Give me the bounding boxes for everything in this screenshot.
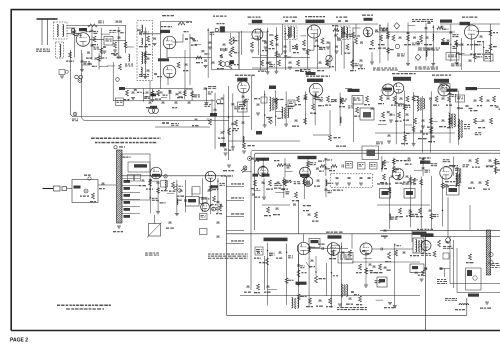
node (264, 114, 265, 115)
coil tuner 4 (141, 67, 142, 77)
wire d right h (462, 54, 473, 56)
node (317, 45, 318, 46)
label value (262, 40, 266, 41)
box tap4 (200, 229, 208, 235)
wire stem (432, 25, 434, 64)
resistor R58 (430, 118, 433, 124)
capacitor T4 top 2 (345, 21, 348, 22)
capacitor C27 (399, 37, 402, 38)
label b23 (356, 304, 359, 305)
label h blob1 (383, 88, 392, 91)
label h5 (433, 105, 437, 106)
capacitor C48 (400, 98, 403, 99)
wire tie (414, 169, 423, 171)
label hor size gray (377, 183, 380, 184)
label l1 (380, 182, 384, 183)
wire g left v (251, 75, 253, 130)
label k5 (274, 188, 277, 189)
capacitor C62 (408, 158, 411, 159)
label value (193, 40, 196, 41)
box phono in (255, 247, 263, 255)
label C7 (191, 45, 194, 46)
label value (179, 96, 183, 97)
resistor R54 (448, 96, 451, 102)
label f10 (218, 138, 220, 139)
capacitor C15 (284, 46, 287, 47)
ground G5 (222, 49, 226, 51)
node (150, 197, 151, 198)
blob pw small 2 (440, 268, 443, 270)
wire stem (100, 28, 102, 60)
label value (194, 94, 198, 95)
ground G11 (326, 47, 330, 49)
capacitor C91 (257, 252, 260, 253)
wire crt nest v3 (452, 240, 454, 288)
label value (452, 94, 455, 95)
label g3 (318, 105, 322, 106)
wire stem (340, 242, 342, 307)
resistor R3 (114, 42, 117, 48)
hatch tuner bar (117, 150, 123, 223)
node (307, 29, 308, 30)
tube V11 (392, 168, 404, 180)
tuner assembly tall dashed box (137, 21, 153, 81)
capacitor C40 (221, 132, 224, 133)
node (260, 37, 261, 38)
capacitor C30 (461, 44, 464, 45)
interlock circle 2 (153, 108, 159, 114)
resistor R62 (474, 118, 477, 124)
arrow vol (306, 262, 310, 268)
radio box top edge (227, 233, 431, 235)
node (286, 252, 287, 253)
resistor R66 (320, 165, 326, 168)
wire AGC y25.4 (67, 24, 127, 26)
coil (243, 136, 244, 142)
label R8 (234, 64, 236, 65)
resistor R7 bleeder 2 (229, 50, 232, 57)
resistor R2 (93, 36, 96, 42)
resistor R52 (406, 96, 409, 102)
label l12 (443, 246, 446, 247)
label value (390, 114, 393, 115)
wire ph out (98, 184, 116, 186)
wire stem (298, 245, 300, 307)
capacitor C69 (169, 222, 172, 223)
long wire bus y57.5 (167, 57, 212, 59)
wire x212 v (211, 99, 213, 117)
capacitor C36 (179, 92, 182, 93)
label value (287, 35, 291, 36)
label photofact line2 (66, 308, 70, 309)
resistor R83 (413, 178, 416, 184)
label trap box (106, 39, 109, 40)
power sub box (212, 32, 240, 70)
tube V vert osc (382, 84, 394, 96)
wire tie (101, 33, 110, 35)
label s11 (472, 167, 474, 168)
ground G20 (421, 126, 425, 128)
blob crt socket (467, 270, 472, 276)
label b8 (346, 259, 349, 260)
label spkr blob (348, 89, 360, 92)
capacitor C72 (217, 236, 220, 237)
capacitor hang f2 (162, 102, 165, 103)
wire stem (81, 53, 83, 69)
hatch T7 (420, 98, 422, 111)
ground G14 (359, 65, 363, 67)
wire stem (267, 28, 269, 72)
label value (212, 207, 214, 208)
label box under (442, 85, 445, 86)
ground G13 (288, 67, 292, 69)
label h6 (446, 105, 448, 106)
label d9 gray right (451, 64, 455, 65)
resistor R41 (243, 143, 246, 149)
resistor R18 (355, 38, 358, 44)
capacitor (420, 131, 423, 132)
label value (327, 168, 330, 169)
label R38 (241, 108, 245, 109)
resistor (285, 278, 288, 284)
label b19 (306, 306, 310, 307)
capacitor C47 (387, 98, 390, 99)
wire tie (457, 53, 465, 55)
wire stem (266, 243, 268, 306)
label onoff (340, 255, 342, 256)
resistor R22 (297, 60, 300, 66)
circle crt j1 (489, 252, 493, 256)
label l9 (396, 216, 398, 217)
label 6sn7 gray (419, 157, 421, 158)
wire b down3 (365, 255, 367, 285)
blob k2 (262, 174, 270, 177)
capacitor C92 (279, 252, 282, 253)
wire x228 vertical (228, 86, 230, 160)
coil (389, 214, 390, 220)
label value (391, 217, 394, 218)
label hor drive gray (402, 183, 404, 184)
resistor (441, 183, 444, 189)
blob LP motor (134, 164, 147, 167)
transformer vert out coil (449, 113, 450, 127)
wire stem (339, 93, 341, 126)
node (223, 131, 224, 132)
label h8 (380, 120, 382, 121)
resistor R59 (449, 118, 452, 124)
resistor (303, 180, 306, 186)
box hor size (380, 189, 391, 199)
label value (234, 106, 236, 107)
capacitor C2 (103, 47, 106, 48)
label video det blob (364, 18, 373, 21)
wire tie (286, 105, 294, 107)
wire x264 v (264, 256, 266, 290)
box under blob (440, 84, 450, 91)
ground seam2 (60, 76, 64, 78)
label value (337, 38, 340, 39)
capacitor (334, 35, 337, 36)
capacitor (422, 168, 425, 169)
label d6 (477, 41, 481, 42)
node (341, 246, 342, 247)
tube V1 RF amp label (79, 28, 87, 31)
wire antenna lead 1 (41, 20, 43, 45)
wire tie (251, 37, 259, 39)
wire double band line B (254, 153, 500, 230)
label value (333, 275, 335, 276)
label h15 (490, 105, 493, 106)
node (458, 125, 459, 126)
capacitor C99 (267, 286, 270, 287)
label phono in (256, 249, 260, 250)
ift T4 3rd IF transformer (338, 26, 351, 40)
node (442, 210, 443, 211)
label h11 (427, 127, 430, 128)
circle r9 (212, 207, 216, 211)
label value (452, 34, 456, 35)
ground (117, 56, 121, 58)
ground G10 (302, 49, 306, 51)
ground (412, 144, 416, 146)
node (394, 244, 395, 245)
label s12 (486, 166, 489, 167)
capacitor C8 (185, 64, 188, 65)
label top d1 gray (412, 19, 414, 20)
capacitor (440, 26, 443, 27)
resistor (403, 104, 406, 110)
wire stem (425, 23, 427, 61)
tube V16a output (327, 243, 340, 256)
label g9 (364, 104, 367, 105)
resistor R63 (490, 118, 493, 124)
label hor osc gray (396, 160, 399, 161)
capacitor C74 (277, 182, 280, 183)
coil OT p (416, 240, 417, 253)
label horiz blob (447, 89, 458, 92)
label tuner inside 1 (139, 32, 143, 33)
wire down x353g (353, 97, 355, 142)
capacitor C52 (406, 114, 409, 115)
label h9 (395, 121, 399, 122)
label b15 (244, 292, 247, 293)
wire stem (441, 176, 443, 227)
label crt7 (480, 308, 483, 309)
resistor R79 (315, 212, 318, 218)
capacitor (324, 168, 327, 169)
label R24 (350, 70, 354, 71)
capacitor C25 (428, 23, 431, 24)
blob output trans (413, 232, 427, 235)
wire v15 down (298, 254, 300, 283)
label s7 (376, 142, 380, 143)
capacitor C11 (204, 60, 207, 61)
capacitor C75 (317, 180, 320, 181)
label value (458, 44, 460, 45)
label r7 (211, 204, 214, 205)
label h3 (398, 104, 401, 105)
ground G18 (256, 113, 260, 115)
label bottom c (258, 71, 260, 72)
capacitor C13 (264, 42, 267, 43)
capacitor C68 (180, 190, 183, 191)
blob osc (188, 199, 196, 202)
capacitor C86 (409, 210, 412, 211)
coil (340, 117, 341, 123)
resistor R hv (438, 240, 441, 247)
resistor R81 (383, 174, 386, 180)
label value (458, 54, 462, 55)
label R10 (217, 68, 220, 69)
wire stem (217, 178, 219, 213)
wire stem (352, 27, 354, 71)
gang tuning cap box (149, 224, 161, 237)
resistor small (220, 55, 223, 59)
wire tie (444, 165, 452, 167)
wire l bus y205 (377, 204, 430, 206)
wire tie (300, 35, 306, 37)
capacitor tuner inside 2 (147, 70, 150, 71)
capacitor C10 (223, 44, 226, 45)
capacitor (284, 164, 287, 165)
wire y133 right (375, 132, 455, 134)
ground G8 (264, 47, 268, 49)
wire tie (99, 66, 108, 68)
resistor R40 (235, 120, 238, 126)
resistor (388, 187, 391, 193)
capacitor C81 (276, 208, 279, 209)
capacitor C42 (320, 100, 323, 101)
wire v x185 down (184, 50, 186, 89)
coil T6 sec (288, 108, 289, 118)
label ion trap (445, 298, 448, 299)
label value (497, 170, 500, 171)
wire pw junction v (444, 269, 446, 278)
label ph2 (90, 201, 93, 202)
blob right h (466, 87, 478, 90)
capacitor C43 (334, 100, 337, 101)
label value (309, 50, 312, 51)
wire l v x448 (447, 198, 449, 237)
circle comp (217, 100, 221, 104)
label g5 (339, 106, 342, 107)
label h13 (447, 127, 451, 128)
label b5 (309, 266, 313, 267)
label pix (289, 101, 292, 104)
resistor AGC (88, 24, 97, 27)
label vol blob (269, 86, 276, 90)
label value (266, 117, 270, 118)
diamond d2 (415, 54, 421, 60)
ground (150, 99, 154, 101)
label pin4 gray (467, 44, 469, 45)
capacitor C46 (295, 120, 298, 121)
ground (284, 124, 288, 126)
resistor R70 (92, 193, 95, 199)
ground G6 (204, 66, 208, 68)
label value (212, 187, 216, 188)
label note d3 gray (415, 67, 417, 68)
resistor R71 (149, 180, 152, 186)
fuse dark body (220, 26, 225, 32)
label k9 (333, 190, 336, 191)
capacitor (316, 168, 319, 169)
capacitor (252, 194, 255, 195)
label R7 (234, 52, 237, 53)
resistor (412, 96, 415, 102)
trap box (104, 37, 113, 46)
resistor R19 (371, 40, 374, 46)
capacitor C94 (322, 247, 323, 250)
resistor R43 (312, 104, 315, 110)
box b small (377, 277, 387, 287)
wire k down (298, 200, 300, 234)
resistor R84 (486, 180, 489, 186)
resistor R69 (476, 158, 479, 164)
label h19 (401, 143, 404, 144)
blob tuner r3 (124, 194, 131, 197)
resistor (409, 211, 412, 217)
resistor x125 (124, 42, 127, 48)
hatch T9 (344, 285, 346, 296)
capacitor (452, 166, 455, 167)
wire stem (207, 28, 209, 78)
ground G16 (131, 98, 135, 100)
resistor (275, 51, 278, 57)
coil tuner 2 (142, 38, 143, 45)
coil L8 focus (459, 304, 469, 305)
tube V3 oscillator label (158, 58, 169, 61)
tube V8 partial (393, 83, 403, 93)
wire C4 to V2 (143, 33, 162, 35)
phono cartridge (43, 188, 54, 190)
resistor R4 (147, 36, 150, 42)
circle j pair 2 (178, 189, 182, 193)
label value (94, 31, 97, 32)
resistor (473, 53, 476, 59)
resistor R16 (333, 29, 339, 32)
label value (220, 204, 223, 205)
resistor R98 (257, 284, 260, 290)
capacitor C41 (304, 98, 307, 99)
ground G15 (370, 62, 374, 64)
wire stem (232, 93, 234, 147)
capacitor (324, 159, 327, 160)
node (285, 33, 286, 34)
label C4 (137, 30, 141, 31)
box right (484, 54, 493, 61)
label R4 (145, 44, 147, 45)
label pw gray (437, 279, 440, 280)
capacitor (242, 96, 245, 97)
resistor R1 (69, 52, 72, 58)
resistor R32 right (489, 44, 492, 50)
wire tie (107, 65, 115, 67)
wire stem (144, 27, 146, 76)
node dot (228, 116, 230, 118)
blob 6sn7 (420, 161, 430, 164)
box onoff sw (338, 253, 353, 264)
tube V seam (238, 81, 250, 93)
wire stem (395, 93, 397, 144)
wire stem (381, 156, 383, 172)
capacitor C63 (469, 160, 472, 161)
label value (285, 191, 289, 192)
box field coil (410, 264, 424, 273)
tube V2 mixer-oscillator (163, 36, 176, 49)
label sync takeoff (336, 146, 339, 147)
label value (469, 108, 473, 109)
